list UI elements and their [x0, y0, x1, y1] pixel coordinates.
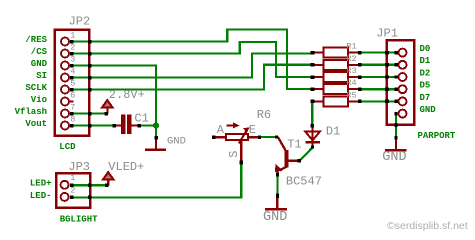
black joint D1 top pin [311, 124, 314, 127]
junction dot node GND/C1 [153, 122, 159, 128]
JP2 pin 5 circle [61, 86, 69, 94]
wire net GND from JP2 pin3 down to ground [72, 66, 156, 138]
black crossings at JP1 left edge [385, 51, 389, 103]
JP1 pin D2 circle [399, 73, 407, 81]
wire net /CS from JP2 pin2 to R3 [72, 42, 312, 77]
svg-text:LCD: LCD [59, 142, 76, 152]
svg-text:SCLK: SCLK [25, 83, 47, 93]
svg-text:1: 1 [70, 173, 75, 183]
svg-text:D5: D5 [420, 81, 431, 91]
svg-text:2: 2 [70, 42, 75, 52]
black joints at JP1 pins [394, 51, 398, 115]
ground symbol under T1 emitter [265, 198, 287, 211]
supply symbol VLED+ arrow [103, 172, 113, 185]
black joint GND wire to ground stem under C1 [154, 136, 158, 139]
svg-text:LED-: LED- [30, 191, 52, 201]
resistor R2 [313, 60, 361, 70]
supply symbol 2.8V+ arrow [102, 100, 112, 113]
capacitor C1 [115, 114, 140, 134]
net labels JP2 pins [15, 35, 48, 129]
svg-text:1: 1 [70, 30, 75, 40]
svg-text:D0: D0 [420, 44, 431, 54]
svg-text:R4: R4 [346, 78, 356, 88]
wire R5 to JP1 pin D7 [360, 100, 398, 102]
svg-text:Vflash: Vflash [15, 107, 47, 117]
wire T1 emitter to ground [276, 175, 278, 199]
JP2 pin 7 circle [61, 110, 69, 118]
svg-text:D2: D2 [420, 68, 431, 78]
black joint D1 bottom pin [311, 146, 314, 149]
resistor R4 [313, 84, 361, 94]
wire R2 to JP1 pin D1 [360, 64, 398, 66]
black tip R6 left pin A [212, 135, 216, 139]
JP1 pin D1 circle [399, 61, 407, 69]
svg-text:3: 3 [70, 54, 75, 64]
svg-text:R3: R3 [346, 66, 356, 76]
svg-text:D1: D1 [326, 125, 340, 139]
black joint at VLED+ supply pin [105, 184, 109, 188]
svg-text:BGLIGHT: BGLIGHT [60, 215, 98, 225]
black joints T1 emitter chain [276, 172, 279, 176]
wire D1 cathode to T1 collector [299, 148, 312, 162]
wire net /RES from JP2 pin1 to R4 [72, 29, 312, 89]
svg-text:T1: T1 [287, 138, 301, 152]
connector JP1 body [387, 40, 414, 125]
JP2 pin 8 circle [61, 122, 69, 130]
black crossing JP1 bottom edge GND stem [394, 123, 397, 127]
svg-text:R2: R2 [346, 54, 356, 64]
resistor R5 [314, 96, 360, 106]
JP3 pin 2 circle [61, 193, 69, 201]
svg-text:7: 7 [70, 102, 75, 112]
svg-text:BC547: BC547 [286, 174, 322, 188]
svg-text:D1: D1 [420, 56, 431, 66]
black joint R6 right pin E [258, 135, 261, 139]
black joint R6 wiper to wire [240, 161, 243, 165]
resistor R1 [313, 48, 361, 58]
svg-text:5: 5 [70, 78, 75, 88]
svg-text:PARPORT: PARPORT [418, 131, 456, 141]
svg-text:C1: C1 [134, 112, 148, 126]
wire JP1 GND pin down to ground [395, 114, 397, 138]
black joint T1 base pin [275, 135, 278, 138]
black joints JP3 pins and crossings [70, 184, 92, 200]
svg-text:JP1: JP1 [376, 26, 398, 40]
black joint T1 collector pin [298, 159, 301, 162]
trimmer R6 [214, 122, 260, 162]
JP1 pin GND circle [399, 110, 407, 118]
connector JP3 body [56, 173, 90, 208]
svg-text:©serdisplib.sf.net: ©serdisplib.sf.net [387, 220, 468, 232]
wire R6 wiper to JP3 LED- [72, 162, 241, 198]
JP2 pin 3 circle [61, 62, 69, 70]
svg-text:VLED+: VLED+ [108, 160, 144, 174]
svg-text:8: 8 [70, 114, 75, 124]
JP1 pin D5 circle [399, 85, 407, 93]
JP2 pin 1 circle [61, 38, 69, 46]
wire C1 right plate to GND vertical [139, 124, 156, 126]
diode D1 [305, 126, 320, 147]
JP1 pin D0 circle [399, 49, 407, 57]
wire JP3 LED+ to VLED supply [72, 184, 108, 186]
svg-text:/RES: /RES [25, 35, 47, 45]
svg-text:LED+: LED+ [30, 179, 52, 189]
wire R5 left down to D1 anode [311, 101, 313, 125]
black joints at resistor wire ends [310, 51, 361, 103]
svg-text:D7: D7 [420, 93, 431, 103]
ground symbol under C1 [145, 139, 166, 152]
labels R1-R5 [346, 42, 356, 101]
JP2 pin numbers 1-8 [70, 30, 75, 124]
black pin joints JP2 [70, 40, 74, 128]
svg-text:GND: GND [420, 105, 437, 115]
svg-text:R5: R5 [346, 90, 356, 100]
svg-text:E: E [249, 123, 256, 137]
net labels JP1 pins [420, 44, 437, 115]
transistor T1 BC547 [275, 137, 300, 176]
svg-text:GND: GND [382, 150, 406, 165]
svg-text:S: S [227, 151, 241, 158]
wire net SCLK from JP2 pin5 to R2 [72, 65, 312, 90]
black corner R5 to D1 wire [311, 100, 315, 103]
svg-text:2: 2 [70, 185, 75, 195]
svg-text:Vout: Vout [25, 119, 47, 129]
JP3 pin 1 circle [61, 181, 69, 189]
svg-text:GND: GND [31, 59, 48, 69]
svg-text:JP3: JP3 [68, 160, 90, 174]
resistor R3 [313, 72, 361, 82]
svg-text:4: 4 [70, 66, 75, 76]
wire R1 to JP1 pin D0 [360, 51, 398, 53]
svg-text:SI: SI [36, 71, 47, 81]
ground symbol under JP1 [385, 139, 406, 152]
black wire crossings at JP2 right edge [88, 40, 92, 128]
svg-text:GND: GND [167, 135, 186, 147]
wire net Vflash from JP2 pin7 to 2.8V supply [72, 112, 107, 114]
svg-text:2.8V+: 2.8V+ [109, 88, 145, 102]
black joint JP1 ground stem [394, 136, 397, 139]
svg-text:GND: GND [263, 210, 287, 225]
JP2 pin 2 circle [61, 50, 69, 58]
connector JP2 body [55, 30, 90, 136]
svg-text:R6: R6 [257, 108, 271, 122]
JP3 pin numbers 1-2 [70, 173, 75, 195]
JP2 pin 6 circle with stub [61, 98, 69, 106]
JP2 pin 4 circle [61, 74, 69, 82]
wire net Vout from JP2 pin8 to C1 [72, 124, 115, 126]
svg-text:JP2: JP2 [69, 14, 91, 28]
svg-text:Vio: Vio [31, 95, 47, 105]
black joints at C1 pins [112, 124, 116, 128]
net labels JP3 pins [30, 179, 52, 201]
svg-text:6: 6 [70, 90, 75, 100]
wire net SI from JP2 pin4 to R1 [72, 53, 312, 77]
JP1 pin D7 circle [399, 97, 407, 105]
wire R6 E terminal to T1 base [259, 136, 278, 138]
wire R4 to JP1 pin D5 [360, 88, 398, 90]
wire R3 to JP1 pin D2 [360, 76, 398, 78]
black joint at 2.8V+ supply pin [104, 112, 108, 116]
svg-text:R1: R1 [346, 42, 356, 52]
svg-text:/CS: /CS [31, 47, 48, 57]
svg-text:A: A [217, 123, 225, 137]
